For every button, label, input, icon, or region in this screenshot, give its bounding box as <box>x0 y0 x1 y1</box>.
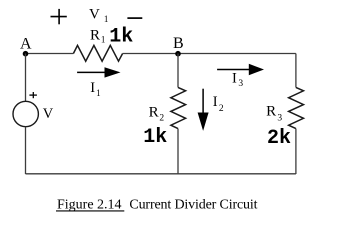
resistor R2 <box>171 87 186 128</box>
wire left: node A down to source <box>25 54 27 102</box>
node B <box>175 51 181 57</box>
wire middle: node B down to R2 <box>177 54 179 88</box>
arrow I1 <box>77 67 120 77</box>
wire middle: R2 down to bottom wire <box>177 129 179 174</box>
svg-text:A: A <box>20 35 32 52</box>
plus sign of source <box>29 92 37 98</box>
wire top: R1 to node B <box>123 53 178 55</box>
wire top: node B to top-right corner <box>178 53 296 55</box>
resistor R3 <box>289 87 304 128</box>
svg-text:V: V <box>43 106 54 122</box>
resistor R1 <box>73 45 122 61</box>
wire bottom <box>26 173 296 175</box>
svg-text:Current Divider Circuit: Current Divider Circuit <box>129 197 257 212</box>
wire right: top-right corner down to R3 <box>295 54 297 88</box>
node A <box>23 51 29 57</box>
svg-text:2k: 2k <box>267 127 291 150</box>
svg-text:B: B <box>173 35 184 52</box>
voltage source V <box>13 101 38 126</box>
wire left: source down to bottom wire <box>25 127 27 174</box>
wire right: R3 down to bottom wire <box>295 129 297 174</box>
caption: Figure 2.14 Current Divider Circuit <box>57 197 258 212</box>
minus sign of V1 polarity <box>127 17 142 19</box>
wire top: node A to R1 <box>25 53 73 55</box>
svg-text:1k: 1k <box>109 26 133 49</box>
caption underline <box>56 210 124 212</box>
arrow I2 <box>198 89 209 131</box>
svg-text:Figure 2.14: Figure 2.14 <box>57 197 122 212</box>
svg-text:1k: 1k <box>143 126 167 149</box>
plus sign of V1 polarity <box>51 9 67 24</box>
arrow I3 <box>217 64 264 75</box>
